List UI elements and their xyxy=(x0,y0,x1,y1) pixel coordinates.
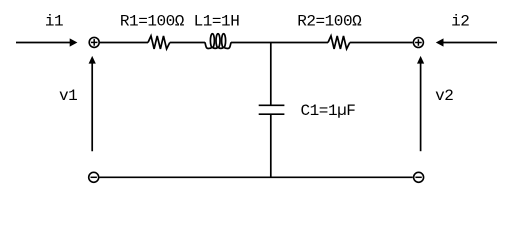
svg-text:R1=100Ω: R1=100Ω xyxy=(120,12,185,30)
svg-text:v1: v1 xyxy=(59,87,77,105)
svg-text:C1=1µF: C1=1µF xyxy=(301,102,356,120)
svg-text:R2=100Ω: R2=100Ω xyxy=(297,12,362,30)
svg-text:i2: i2 xyxy=(451,12,469,30)
svg-text:L1=1H: L1=1H xyxy=(194,12,240,30)
svg-text:v2: v2 xyxy=(435,87,453,105)
svg-text:i1: i1 xyxy=(45,12,63,30)
